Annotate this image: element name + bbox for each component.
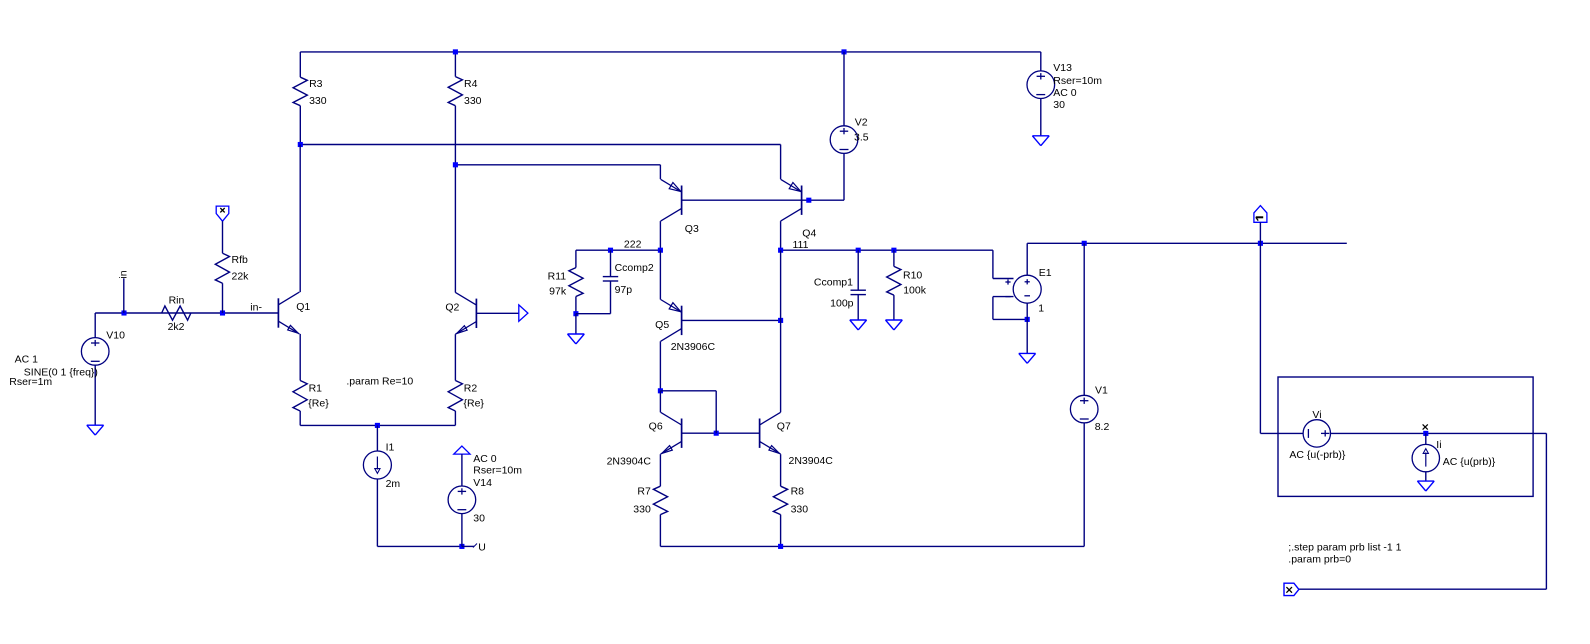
svg-text:2N3906C: 2N3906C [671, 341, 716, 353]
svg-text:AC 0: AC 0 [1053, 87, 1077, 99]
svg-text:Ii: Ii [1436, 439, 1441, 451]
svg-text:V10: V10 [106, 330, 125, 342]
svg-text:30: 30 [473, 513, 485, 525]
svg-text:Q1: Q1 [296, 301, 310, 313]
svg-text:100k: 100k [903, 285, 927, 297]
svg-text:Rser=10m: Rser=10m [473, 465, 522, 477]
svg-text:97k: 97k [549, 286, 567, 298]
svg-text:Q3: Q3 [685, 223, 699, 235]
svg-text:AC 0: AC 0 [473, 453, 497, 465]
svg-text:Rser=10m: Rser=10m [1053, 75, 1102, 87]
svg-text:E1: E1 [1039, 267, 1052, 279]
svg-text:Ccomp1: Ccomp1 [814, 277, 853, 289]
svg-text:330: 330 [309, 95, 327, 107]
svg-text:AC {u(prb)}: AC {u(prb)} [1443, 456, 1496, 468]
svg-text:Q5: Q5 [655, 319, 669, 331]
svg-text:Q4: Q4 [802, 227, 816, 239]
svg-text:Rin: Rin [169, 295, 185, 307]
svg-text:2k2: 2k2 [168, 321, 185, 333]
svg-text:22k: 22k [232, 271, 250, 283]
svg-text:I1: I1 [386, 442, 395, 454]
svg-text:R4: R4 [464, 78, 478, 90]
svg-text:.param Re=10: .param Re=10 [346, 376, 413, 388]
svg-text:V13: V13 [1053, 62, 1072, 74]
svg-text:30: 30 [1053, 99, 1065, 111]
svg-text:Q7: Q7 [777, 421, 791, 433]
svg-text:Rfb: Rfb [232, 254, 249, 266]
svg-text:{Re}: {Re} [464, 397, 485, 409]
svg-text:R3: R3 [309, 78, 323, 90]
svg-text:2N3904C: 2N3904C [607, 456, 652, 468]
svg-text:AC 1: AC 1 [15, 354, 39, 366]
svg-text:Q2: Q2 [445, 302, 459, 314]
svg-text:97p: 97p [615, 284, 633, 296]
svg-text:2N3904C: 2N3904C [789, 455, 834, 467]
svg-text:222: 222 [624, 238, 642, 250]
svg-text:{Re}: {Re} [308, 397, 329, 409]
svg-text:Ccomp2: Ccomp2 [615, 262, 654, 274]
svg-text:330: 330 [464, 95, 482, 107]
svg-text:2m: 2m [386, 478, 401, 490]
svg-text:R2: R2 [464, 383, 478, 395]
svg-text:V2: V2 [855, 117, 868, 129]
svg-text:1: 1 [1038, 303, 1044, 315]
svg-text:330: 330 [791, 504, 809, 516]
svg-text:100p: 100p [830, 298, 854, 310]
svg-text:Vi: Vi [1312, 409, 1321, 421]
svg-text:;.step param prb list -1 1: ;.step param prb list -1 1 [1288, 542, 1401, 554]
svg-text:AC {u(-prb)}: AC {u(-prb)} [1289, 449, 1346, 461]
svg-text:R1: R1 [309, 383, 323, 395]
svg-text:R8: R8 [791, 486, 805, 498]
svg-text:.param prb=0: .param prb=0 [1288, 554, 1351, 566]
svg-text:R11: R11 [548, 271, 567, 283]
svg-text:111: 111 [793, 239, 809, 251]
svg-text:U: U [478, 542, 486, 554]
svg-text:in-: in- [250, 301, 262, 313]
svg-text:330: 330 [633, 504, 651, 516]
svg-text:Q6: Q6 [649, 420, 663, 432]
svg-text:V1: V1 [1095, 385, 1108, 397]
svg-text:R10: R10 [903, 270, 922, 282]
svg-text:Rser=1m: Rser=1m [9, 376, 52, 388]
svg-text:8.2: 8.2 [1095, 421, 1110, 433]
svg-text:V14: V14 [473, 477, 492, 489]
svg-text:R7: R7 [637, 486, 651, 498]
svg-text:in: in [117, 270, 129, 278]
svg-text:3.5: 3.5 [854, 132, 869, 144]
